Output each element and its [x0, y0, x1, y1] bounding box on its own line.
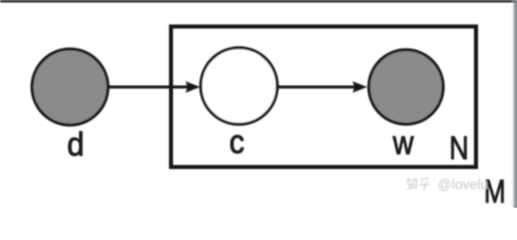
svg-text:w: w — [392, 124, 414, 161]
svg-text:d: d — [67, 126, 84, 163]
svg-text:c: c — [229, 123, 244, 160]
svg-text:N: N — [449, 131, 468, 167]
svg-text:@lovelu: @lovelu — [438, 176, 489, 192]
